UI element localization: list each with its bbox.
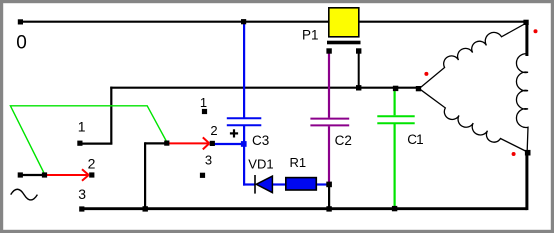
contact square P1 left	[326, 48, 331, 53]
wire second horizontal (phase 1 net)	[110, 87, 419, 89]
junction square C1 top	[393, 86, 398, 91]
terminal square left 3	[79, 206, 84, 211]
capacitor C3 leads (blue)	[214, 22, 328, 186]
terminal square left 2	[89, 172, 94, 177]
contact square P1 right	[356, 48, 361, 53]
junction square C3 node (blue)	[241, 141, 247, 147]
junction square P1 stub / wire	[356, 85, 361, 90]
wire source segment terminal 2	[20, 174, 44, 176]
junction square bottom / C1	[392, 206, 397, 211]
motor winding bottom (B to C diagonal coil)	[421, 90, 526, 151]
svg-text:C2: C2	[335, 133, 352, 148]
wire bottom horizontal (phase 3 net)	[82, 207, 527, 210]
junction square node 2 (green/red)	[164, 141, 169, 146]
svg-text:1: 1	[78, 118, 86, 134]
pushbutton P1 button (yellow)	[329, 8, 359, 37]
wire P1 right contact stub	[358, 52, 360, 89]
wire corner horizontal to node	[145, 142, 167, 144]
capacitor C3 plates	[227, 118, 261, 125]
wire green from source 2 to node 2	[10, 106, 166, 174]
motor winding right (vertical coil)	[516, 54, 528, 151]
terminal square motor 3 (unconnected)	[200, 173, 205, 178]
terminal square top-left node 0	[18, 19, 23, 24]
svg-text:0: 0	[16, 33, 27, 54]
svg-text:C3: C3	[252, 133, 269, 148]
capacitor C1 plates	[377, 116, 414, 123]
diode VD1	[255, 175, 272, 194]
svg-text:C1: C1	[407, 132, 423, 147]
red dot near node B	[424, 72, 428, 76]
terminal square source left end	[18, 172, 23, 177]
terminal square node B	[416, 86, 421, 91]
terminal square source 2	[42, 172, 47, 177]
svg-text:3: 3	[78, 186, 86, 202]
wire red arrow left (phase 2 hookup)	[46, 169, 89, 181]
AC source sine symbol	[11, 189, 38, 200]
svg-text:R1: R1	[290, 155, 307, 170]
wire left vertical x=111	[110, 87, 112, 144]
svg-text:P1: P1	[302, 27, 319, 42]
svg-text:1: 1	[200, 95, 207, 110]
motor winding top (B to A diagonal coil)	[421, 23, 526, 87]
capacitor C2 leads (purple)	[328, 52, 330, 184]
capacitor C3 polarity plus	[230, 129, 238, 137]
junction square bottom / C2-R1 stub	[326, 206, 331, 211]
wire to terminal 1 left	[79, 143, 112, 145]
wire red arrow middle (to motor terminal 2)	[168, 137, 209, 149]
wire net 0 top horizontal	[20, 21, 527, 23]
svg-text:VD1: VD1	[248, 157, 273, 172]
pushbutton P1 contact bar	[327, 41, 361, 45]
junction square top wire / C3 lead	[241, 19, 246, 24]
resistor R1	[286, 178, 317, 190]
capacitor C2 plates	[310, 119, 349, 126]
red dot near node C	[512, 152, 516, 156]
junction square bottom / corner vertical	[143, 206, 148, 211]
terminal square motor 1 (unconnected)	[202, 109, 207, 114]
wire right vertical bottom	[525, 153, 528, 211]
svg-text:3: 3	[205, 152, 212, 167]
wire right vertical top	[525, 22, 528, 56]
terminal square node C	[525, 150, 531, 156]
terminal square node A top-right	[523, 20, 528, 25]
junction square R1 / C2	[326, 182, 332, 188]
svg-text:2: 2	[210, 123, 217, 138]
svg-text:2: 2	[88, 155, 96, 171]
wire corner vertical down	[144, 142, 146, 208]
wire stub from R1 junction down	[328, 185, 330, 210]
capacitor C1 leads (green)	[394, 89, 396, 208]
red dot near node A	[534, 29, 538, 33]
terminal square left 1	[77, 141, 82, 146]
terminal square motor 2	[210, 141, 215, 146]
